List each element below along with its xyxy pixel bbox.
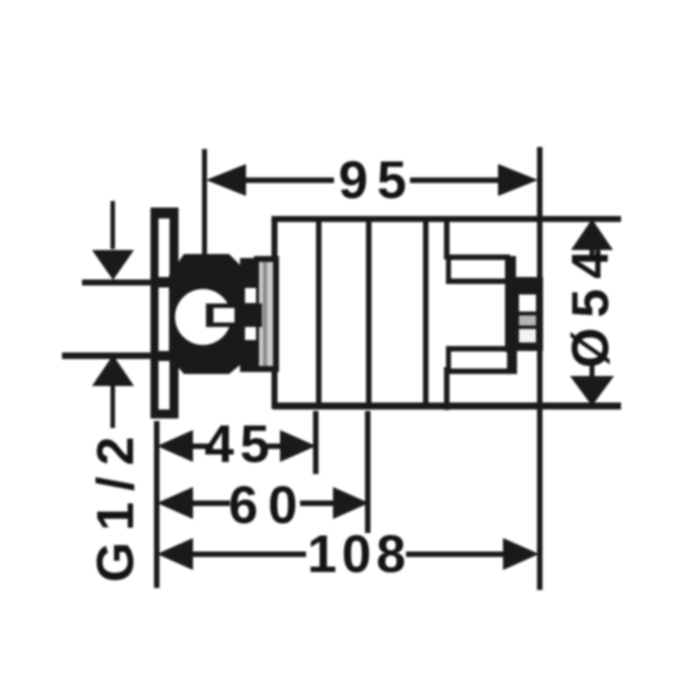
lower pipe fitting block in slot — [158, 351, 173, 361]
svg-text:60: 60 — [229, 476, 308, 535]
nut lower step bar — [507, 346, 517, 374]
dim Ø54 up arrowhead — [571, 219, 613, 250]
threaded nut block — [514, 277, 543, 351]
neck bottom channel left cap — [446, 346, 451, 374]
dim 108 line left segment — [188, 552, 306, 558]
upper pipe centerline — [82, 280, 172, 286]
dim 60 left arrowhead — [157, 487, 193, 519]
dim 95 left extension line — [202, 149, 207, 257]
bottom dims left extension line — [154, 421, 160, 588]
flange body — [254, 256, 279, 372]
dim 45 line left segment — [188, 444, 213, 450]
dim 60 right arrowhead — [333, 487, 369, 519]
left small dimension upper leader line — [111, 201, 116, 249]
nut left face bar — [505, 256, 516, 352]
dim 95 right arrowhead — [498, 164, 538, 196]
main body internal divider 2 — [366, 216, 372, 408]
dim 45 line right segment — [262, 444, 284, 450]
thread window 3 — [519, 329, 536, 343]
dim 108 right arrowhead — [503, 538, 539, 570]
left small dimension lower leader line — [111, 384, 116, 428]
main body rectangle top edge + extension line to Ø54 — [272, 216, 621, 222]
dim Ø54 line lower stub — [590, 364, 595, 378]
flange inner slot — [259, 262, 273, 366]
dim 108 line right segment — [406, 552, 507, 558]
thread window 1 — [519, 295, 536, 312]
neck top channel upper line — [446, 255, 510, 261]
main body right edge upper segment — [444, 216, 450, 260]
flange inner gray line — [263, 262, 267, 366]
main body rectangle bottom edge + extension line to Ø54 — [272, 403, 621, 410]
neck bottom channel lower line — [446, 369, 510, 375]
main body right edge lower segment — [444, 367, 450, 410]
thread window 2 — [519, 316, 536, 326]
wall plate outer — [151, 208, 179, 419]
dim 95 line right segment — [410, 178, 504, 184]
lower pipe centerline — [62, 353, 172, 360]
neck bottom channel upper line — [446, 346, 516, 352]
svg-text:Ø54: Ø54 — [562, 240, 620, 368]
notch white lower — [245, 327, 256, 341]
svg-text:G1/2: G1/2 — [87, 426, 145, 583]
wall plate inner slot — [159, 219, 170, 410]
dim 60 right extension line — [365, 411, 371, 533]
left small dimension down arrowhead — [92, 250, 134, 280]
upper pipe fitting block in slot — [158, 277, 173, 288]
dim 45 right arrowhead — [280, 430, 316, 462]
dim 95 right extension line (long, shared with 108) — [537, 147, 543, 590]
svg-text:108: 108 — [307, 525, 410, 584]
dim Ø54 line upper stub — [590, 246, 595, 258]
main body internal divider 3 — [423, 216, 429, 408]
dim 60 line left segment — [188, 501, 230, 507]
main body left edge — [272, 216, 278, 408]
valve cartridge circle — [175, 289, 231, 345]
dim 45 right extension line — [313, 411, 319, 474]
main body internal divider 1 — [316, 216, 322, 408]
neck top channel lower line — [446, 279, 516, 285]
dim Ø54 down arrowhead — [570, 376, 614, 406]
valve connector arm — [240, 258, 259, 372]
notch white upper — [245, 288, 256, 303]
valve body blob — [169, 254, 250, 374]
dim 95 left arrowhead — [206, 164, 246, 196]
dim 60 line right segment — [300, 501, 337, 507]
valve tab frame into flange — [206, 304, 262, 328]
left small dimension up arrowhead — [92, 355, 134, 386]
valve tab white window — [214, 308, 235, 323]
dim 45 left arrowhead — [157, 430, 193, 462]
neck top channel left cap — [446, 255, 451, 284]
dim 108 left arrowhead — [157, 538, 193, 570]
dim 95 line left segment — [240, 178, 334, 184]
svg-text:95: 95 — [339, 151, 416, 210]
